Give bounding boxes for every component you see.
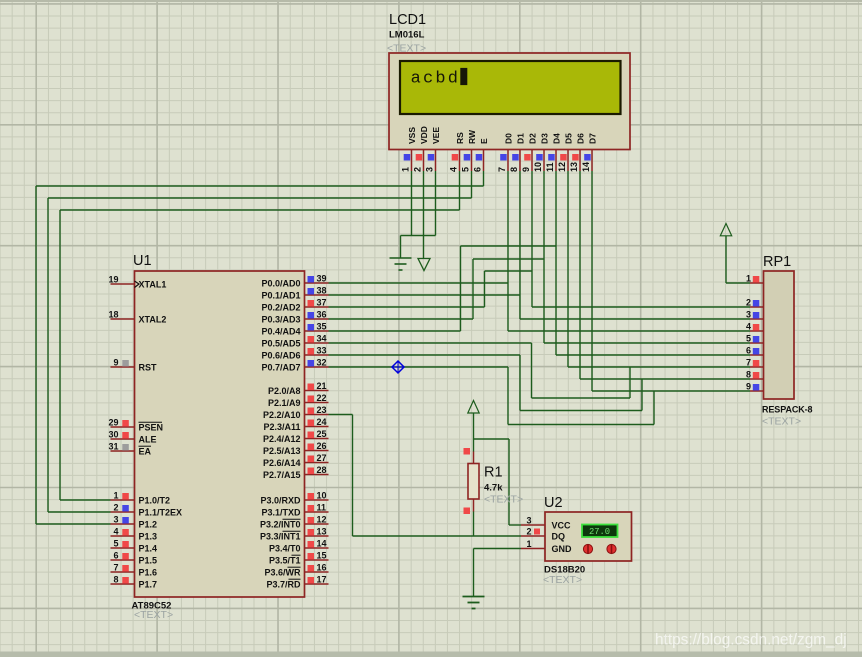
svg-text:VDD: VDD [419, 126, 429, 144]
svg-text:39: 39 [317, 274, 327, 284]
wire: net D5 (LCD D5 / U1 P0.5 / RP1 pin7) [329, 171, 751, 398]
U1 pin 7 (P1.6) [111, 563, 158, 578]
svg-text:3: 3 [526, 516, 531, 526]
svg-text:P2.6/A14: P2.6/A14 [263, 458, 301, 468]
LCD1 pin 2 (VDD) [413, 126, 430, 172]
svg-text:P2.0/A8: P2.0/A8 [268, 386, 301, 396]
svg-text:29: 29 [108, 418, 118, 428]
temperature sensor U2 DS18B20 body [545, 512, 632, 561]
wire: power arrow to R1 top and U2 VCC [474, 413, 522, 525]
U1 pin 39 (P0.0/AD0) [261, 274, 328, 289]
power-down arrow symbol (LCD VDD) [418, 259, 430, 271]
U2 pin 2 (DQ) [521, 527, 565, 542]
svg-text:P1.2: P1.2 [139, 520, 158, 530]
svg-text:<TEXT>: <TEXT> [762, 416, 801, 428]
svg-text:15: 15 [317, 551, 327, 561]
svg-text:P0.4/AD4: P0.4/AD4 [261, 327, 300, 337]
U1 pin 10 (P3.0/RXD) [260, 491, 328, 506]
svg-text:8: 8 [746, 370, 751, 380]
label 4.7k value [484, 483, 503, 494]
watermark [655, 632, 847, 649]
svg-text:13: 13 [317, 527, 327, 537]
svg-text:P0.7/AD7: P0.7/AD7 [261, 363, 300, 373]
svg-text:6: 6 [473, 167, 483, 172]
wire: net D4 (LCD D4 / U1 P0.4 / RP1 pin6) [329, 171, 751, 355]
U1 pin 21 (P2.0/A8) [268, 381, 329, 396]
label LM016L value [389, 30, 425, 41]
svg-text:P2.4/A12: P2.4/A12 [263, 434, 301, 444]
svg-text:6: 6 [113, 551, 118, 561]
U1 pin 16 (P3.6/WR) [264, 563, 328, 578]
svg-text:11: 11 [317, 503, 327, 513]
U1 pin 14 (P3.4/T0) [269, 539, 329, 554]
svg-text:D2: D2 [528, 133, 538, 144]
RP1 pin 7 [746, 358, 764, 368]
svg-text:<TEXT>: <TEXT> [543, 574, 582, 586]
svg-text:13: 13 [569, 162, 579, 172]
label LCD <TEXT> [387, 43, 426, 55]
LCD1 pin 13 (D6) [569, 133, 586, 172]
R1 terminal squares [464, 448, 471, 514]
label AT89C52 value [132, 601, 172, 612]
resistor R1 4.7k [468, 452, 479, 512]
svg-text:6: 6 [746, 346, 751, 356]
svg-text:RS: RS [455, 132, 465, 144]
LCD1 pin 7 (D0) [497, 133, 514, 172]
svg-text:2: 2 [746, 298, 751, 308]
U1 pin 34 (P0.5/AD5) [261, 334, 328, 349]
svg-text:P1.4: P1.4 [139, 544, 158, 554]
U1 pin 17 (P3.7/RD) [266, 575, 328, 590]
power arrow symbol (RP1 common) [720, 224, 731, 236]
U1 pin 12 (P3.2/INT0) [260, 515, 329, 530]
svg-text:U2: U2 [544, 495, 563, 511]
LCD1 pin 9 (D2) [521, 133, 538, 172]
svg-text:9: 9 [113, 358, 118, 368]
svg-text:P3.3/INT1: P3.3/INT1 [260, 532, 301, 542]
svg-text:VCC: VCC [552, 521, 572, 531]
svg-text:17: 17 [317, 575, 327, 585]
svg-text:P3.1/TXD: P3.1/TXD [261, 508, 301, 518]
svg-text:P0.5/AD5: P0.5/AD5 [261, 339, 300, 349]
RP1 pin 6 [746, 346, 764, 356]
RP1 pin 8 [746, 370, 764, 380]
U1 pin 4 (P1.3) [111, 527, 158, 542]
svg-text:P3.0/RXD: P3.0/RXD [260, 496, 301, 506]
LCD1 pin 3 (VEE) [425, 127, 442, 172]
svg-text:34: 34 [317, 334, 327, 344]
label U1 <TEXT> [134, 609, 173, 621]
U1 pin 33 (P0.6/AD6) [261, 346, 328, 361]
LCD1 pin 11 (D4) [545, 133, 562, 172]
svg-text:14: 14 [581, 162, 591, 172]
wire: net D7 (LCD D7 / U1 P0.7 / RP1 pin9) [329, 171, 751, 425]
U2 thermometer icons [583, 544, 616, 554]
svg-text:26: 26 [317, 441, 327, 451]
svg-text:<TEXT>: <TEXT> [387, 43, 426, 55]
wire: net D0 (LCD D0 / U1 P0.0 / RP1 pin4) [329, 171, 751, 331]
svg-text:10: 10 [317, 491, 327, 501]
origin marker (blue diamond) on P0.7 wire [392, 361, 404, 373]
RP1 pin 3 [746, 310, 764, 320]
svg-text:P2.1/A9: P2.1/A9 [268, 398, 301, 408]
svg-text:P3.5/T1: P3.5/T1 [269, 556, 301, 566]
label LCD1 reference [389, 12, 426, 28]
label U2 <TEXT> [543, 574, 582, 586]
wire: U1 P2.2/A10 (pin23) to U2 DQ [329, 415, 522, 537]
wire: R1 bottom to DQ net [473, 512, 475, 537]
svg-text:5: 5 [461, 167, 471, 172]
svg-text:P2.5/A13: P2.5/A13 [263, 446, 301, 456]
U1 pin 28 (P2.7/A15) [263, 465, 329, 480]
U1 pin 3 (P1.2) [111, 515, 158, 530]
svg-text:16: 16 [317, 563, 327, 573]
LCD1 pin 8 (D1) [509, 133, 526, 172]
svg-text:31: 31 [108, 442, 118, 452]
LCD1 pin 12 (D5) [557, 133, 574, 172]
svg-text:2: 2 [413, 167, 423, 172]
U1 pin 2 (P1.1/T2EX) [111, 503, 183, 518]
LCD1 pin 10 (D3) [533, 133, 550, 172]
svg-text:3: 3 [425, 167, 435, 172]
svg-text:37: 37 [317, 298, 327, 308]
svg-text:24: 24 [317, 417, 327, 427]
U1 pin 15 (P3.5/T1) [269, 551, 329, 566]
label RESPACK-8 value [762, 405, 813, 415]
svg-text:35: 35 [317, 322, 327, 332]
svg-text:<TEXT>: <TEXT> [134, 609, 173, 621]
U2 display 27.0 [582, 525, 618, 538]
svg-text:7: 7 [746, 358, 751, 368]
svg-text:3: 3 [113, 515, 118, 525]
svg-text:RST: RST [139, 363, 158, 373]
svg-text:VSS: VSS [407, 127, 417, 144]
svg-text:27.0: 27.0 [589, 527, 610, 537]
U1 pin 8 (P1.7) [111, 575, 158, 590]
svg-text:P3.6/WR: P3.6/WR [264, 568, 301, 578]
U1 pin 35 (P0.4/AD4) [261, 322, 328, 337]
svg-text:19: 19 [108, 275, 118, 285]
svg-text:P0.3/AD3: P0.3/AD3 [261, 315, 300, 325]
wire: LCD VDD to power-down arrow [423, 171, 425, 258]
svg-text:P0.0/AD0: P0.0/AD0 [261, 279, 300, 289]
wire: net D6 (LCD D6 / U1 P0.6 / RP1 pin8) [329, 171, 751, 411]
wire: net D1 (LCD D1 / U1 P0.1 / RP1 pin3) [329, 171, 751, 319]
wire: LCD RS (pin4) to U1 P1.0 (pin1), wraps left side [60, 171, 460, 500]
svg-text:P3.2/INT0: P3.2/INT0 [260, 520, 301, 530]
svg-text:acbd: acbd [411, 70, 461, 89]
U1 pin 37 (P0.2/AD2) [261, 298, 328, 313]
svg-text:10: 10 [533, 162, 543, 172]
svg-text:30: 30 [108, 430, 118, 440]
svg-text:36: 36 [317, 310, 327, 320]
svg-text:DQ: DQ [552, 532, 566, 542]
svg-text:D4: D4 [552, 133, 562, 144]
svg-text:33: 33 [317, 346, 327, 356]
svg-text:P1.7: P1.7 [139, 580, 158, 590]
svg-text:11: 11 [545, 162, 555, 172]
svg-text:P3.7/RD: P3.7/RD [266, 580, 301, 590]
svg-text:5: 5 [113, 539, 118, 549]
svg-text:1: 1 [526, 539, 531, 549]
wire: RP1 pin1 common to power arrow [726, 236, 750, 283]
U1 pin 9 (RST) [111, 358, 158, 373]
svg-text:1: 1 [401, 167, 411, 172]
U1 pin 30 (ALE) [108, 430, 156, 445]
wire: U2 GND to ground [474, 549, 522, 597]
U1 pin 38 (P0.1/AD1) [261, 286, 328, 301]
label U2 reference [544, 495, 563, 511]
label DS18B20 value [544, 565, 585, 576]
svg-text:P0.1/AD1: P0.1/AD1 [261, 291, 300, 301]
svg-text:P1.5: P1.5 [139, 556, 158, 566]
svg-text:D5: D5 [564, 133, 574, 144]
svg-text:RESPACK-8: RESPACK-8 [762, 405, 813, 415]
U1 pin 6 (P1.5) [111, 551, 158, 566]
U1 pin 13 (P3.3/INT1) [260, 527, 329, 542]
svg-text:2: 2 [526, 527, 531, 537]
svg-text:38: 38 [317, 286, 327, 296]
U2 pin 1 (GND) [521, 539, 572, 554]
svg-text:<TEXT>: <TEXT> [484, 494, 523, 506]
U1 pin 26 (P2.5/A13) [263, 441, 329, 456]
LCD1 pin 5 (RW) [461, 129, 478, 172]
svg-text:VEE: VEE [431, 127, 441, 144]
svg-text:https://blog.csdn.net/zgm_dj: https://blog.csdn.net/zgm_dj [655, 632, 847, 649]
U1 pin 32 (P0.7/AD7) [261, 358, 328, 373]
svg-text:25: 25 [317, 429, 327, 439]
label R1 reference [484, 465, 503, 481]
svg-text:22: 22 [317, 393, 327, 403]
svg-text:XTAL1: XTAL1 [139, 280, 167, 290]
svg-text:8: 8 [113, 575, 118, 585]
ground symbol (U2 GND) [463, 597, 485, 609]
svg-text:D7: D7 [588, 133, 598, 144]
svg-text:U1: U1 [133, 253, 152, 269]
svg-text:D0: D0 [504, 133, 514, 144]
svg-text:4: 4 [746, 322, 751, 332]
LCD display text "acbd" with cursor [411, 68, 468, 89]
svg-text:R1: R1 [484, 465, 503, 481]
svg-text:P1.1/T2EX: P1.1/T2EX [139, 508, 183, 518]
svg-text:7: 7 [113, 563, 118, 573]
wire: LCD RW (pin5) to U1 P1.1 (pin2), wraps left side [48, 171, 472, 512]
U1 pin 23 (P2.2/A10) [263, 405, 329, 420]
ground symbol (near LCD VSS/VEE) [390, 258, 412, 270]
svg-text:EA: EA [139, 447, 152, 457]
LCD LCD1 LM016L body [389, 53, 630, 150]
svg-text:E: E [479, 138, 489, 144]
U1 pin 11 (P3.1/TXD) [261, 503, 328, 518]
svg-text:18: 18 [108, 310, 118, 320]
svg-text:PSEN: PSEN [139, 423, 164, 433]
svg-text:D6: D6 [576, 133, 586, 144]
resistor pack RP1 RESPACK-8 body [764, 271, 795, 399]
U1 pin 24 (P2.3/A11) [263, 417, 328, 432]
U1 pin 18 (XTAL2) [108, 310, 166, 325]
svg-text:LCD1: LCD1 [389, 12, 426, 28]
svg-text:P3.4/T0: P3.4/T0 [269, 544, 301, 554]
svg-text:5: 5 [746, 334, 751, 344]
svg-text:ALE: ALE [139, 435, 157, 445]
RP1 pin 2 [746, 298, 764, 308]
wire: LCD VSS+VEE to ground [401, 171, 436, 258]
svg-text:4.7k: 4.7k [484, 483, 503, 494]
svg-text:GND: GND [552, 544, 573, 554]
svg-text:P1.3: P1.3 [139, 532, 158, 542]
RP1 pin 5 [746, 334, 764, 344]
label RP1 reference [763, 254, 791, 270]
RP1 pin 1 [746, 274, 764, 284]
svg-text:P2.7/A15: P2.7/A15 [263, 470, 301, 480]
svg-text:9: 9 [521, 167, 531, 172]
svg-text:32: 32 [317, 358, 327, 368]
svg-text:XTAL2: XTAL2 [139, 315, 167, 325]
U1 pin 19 (XTAL1) [108, 275, 166, 290]
LCD1 pin 4 (RS) [449, 132, 466, 172]
wire: LCD E (pin6) to U1 P1.2 (pin3), wraps left side [36, 171, 484, 524]
svg-text:P1.0/T2: P1.0/T2 [139, 496, 171, 506]
LCD1 pin 1 (VSS) [401, 127, 418, 172]
svg-text:P2.2/A10: P2.2/A10 [263, 410, 301, 420]
U1 pin 22 (P2.1/A9) [268, 393, 329, 408]
svg-text:4: 4 [449, 167, 459, 172]
U1 pin 5 (P1.4) [111, 539, 158, 554]
svg-text:P2.3/A11: P2.3/A11 [263, 422, 300, 432]
svg-text:14: 14 [317, 539, 327, 549]
svg-text:7: 7 [497, 167, 507, 172]
svg-text:RW: RW [467, 129, 477, 144]
svg-text:21: 21 [317, 381, 327, 391]
label R1 <TEXT> [484, 494, 523, 506]
svg-text:9: 9 [746, 382, 751, 392]
svg-text:P0.2/AD2: P0.2/AD2 [261, 303, 300, 313]
wire: net D2 (LCD D2 / U1 P0.2 / RP1 pin2) [329, 171, 751, 307]
svg-text:12: 12 [317, 515, 327, 525]
U2 pin 3 (VCC) [521, 516, 571, 531]
svg-text:LM016L: LM016L [389, 30, 425, 41]
svg-text:23: 23 [317, 405, 327, 415]
U1 pin 31 (EA) [108, 442, 151, 457]
svg-text:D1: D1 [516, 133, 526, 144]
power arrow symbol (R1 / U2 VCC) [468, 401, 479, 414]
RP1 pin 4 [746, 322, 764, 332]
U1 pin 1 (P1.0/T2) [111, 491, 171, 506]
label U1 reference [133, 253, 152, 269]
U1 pin 29 (PSEN) [108, 418, 163, 433]
LCD1 pin 14 (D7) [581, 133, 598, 172]
svg-text:3: 3 [746, 310, 751, 320]
U1 pin 36 (P0.3/AD3) [261, 310, 328, 325]
svg-text:12: 12 [557, 162, 567, 172]
svg-text:D3: D3 [540, 133, 550, 144]
svg-text:P0.6/AD6: P0.6/AD6 [261, 351, 300, 361]
svg-text:P1.6: P1.6 [139, 568, 158, 578]
svg-text:RP1: RP1 [763, 254, 791, 270]
RP1 pin 9 [746, 382, 764, 392]
label RP1 <TEXT> [762, 416, 801, 428]
svg-text:4: 4 [113, 527, 118, 537]
U1 pin 25 (P2.4/A12) [263, 429, 329, 444]
svg-text:28: 28 [317, 465, 327, 475]
wire: net D3 (LCD D3 / U1 P0.3 / RP1 pin5) [329, 171, 751, 343]
svg-text:8: 8 [509, 167, 519, 172]
U1 pin 27 (P2.6/A14) [263, 453, 329, 468]
svg-text:1: 1 [113, 491, 118, 501]
svg-text:1: 1 [746, 274, 751, 284]
svg-text:2: 2 [113, 503, 118, 513]
svg-text:27: 27 [317, 453, 327, 463]
LCD1 pin 6 (E) [473, 138, 490, 172]
microcontroller U1 AT89C52 body [135, 271, 305, 597]
